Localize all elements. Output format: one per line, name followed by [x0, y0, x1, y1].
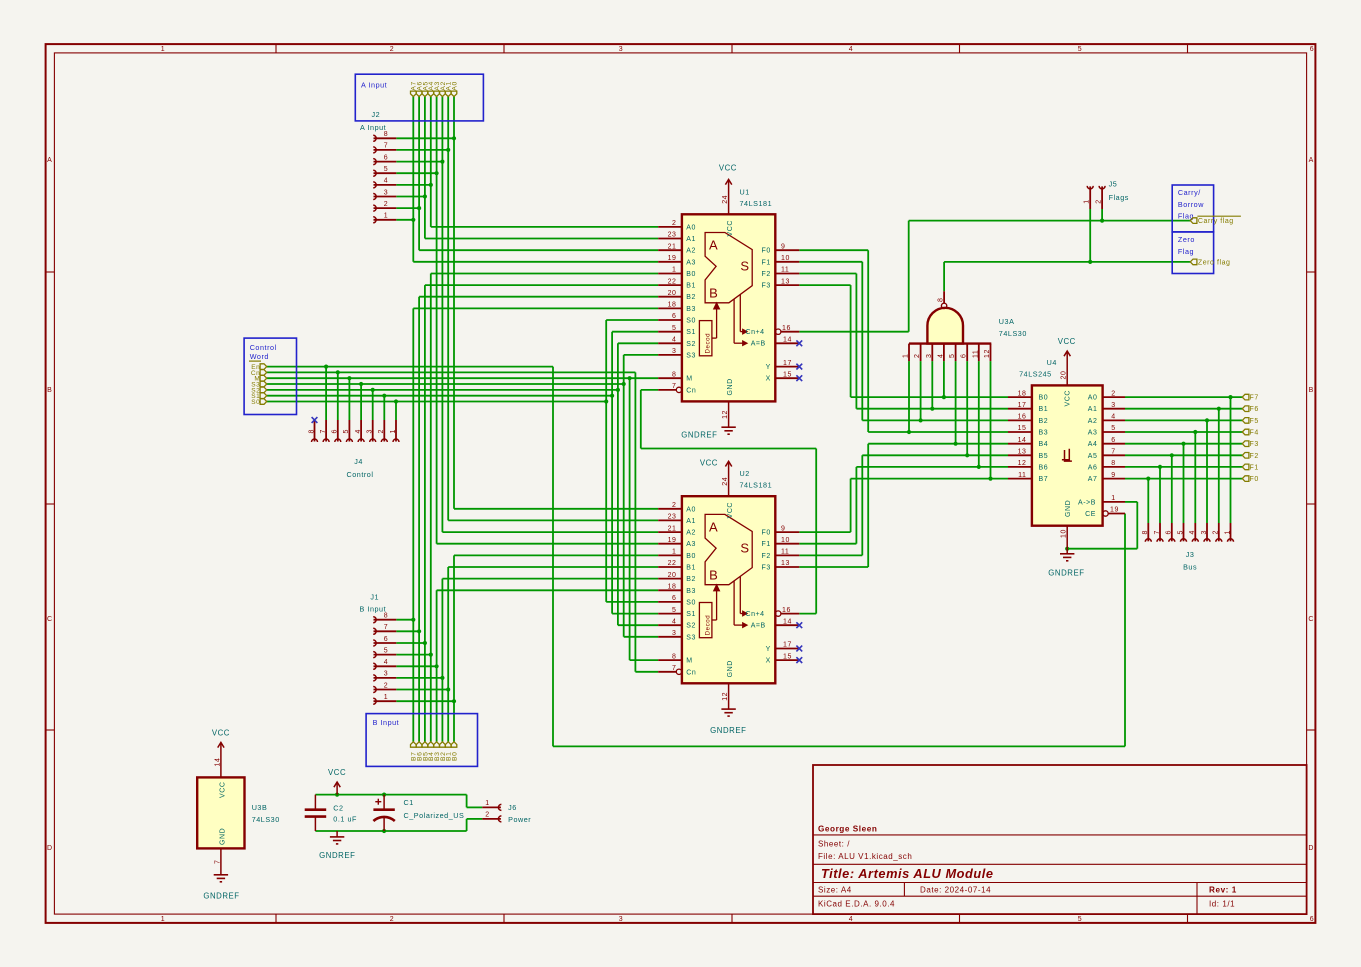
svg-text:A=B: A=B [751, 341, 766, 348]
svg-text:3: 3 [1201, 530, 1208, 534]
svg-text:D: D [47, 845, 53, 852]
svg-text:B1: B1 [686, 565, 696, 572]
svg-text:S: S [740, 540, 749, 555]
svg-text:6: 6 [384, 636, 388, 643]
svg-text:6: 6 [1166, 530, 1173, 534]
svg-text:A3: A3 [686, 259, 696, 266]
svg-text:A2: A2 [686, 530, 696, 537]
svg-text:1: 1 [161, 46, 165, 53]
svg-text:3: 3 [619, 46, 623, 53]
svg-text:A: A [709, 519, 718, 534]
svg-text:B Input: B Input [373, 718, 400, 727]
svg-text:Borrow: Borrow [1178, 200, 1204, 209]
svg-text:X: X [766, 376, 771, 383]
svg-text:A Input: A Input [361, 80, 387, 89]
svg-text:Id: 1/1: Id: 1/1 [1209, 900, 1235, 909]
svg-text:23: 23 [668, 514, 677, 521]
connector J1 B Input [360, 593, 397, 705]
svg-text:12: 12 [722, 410, 729, 419]
svg-text:1: 1 [1083, 199, 1090, 203]
svg-text:1: 1 [672, 549, 676, 556]
svg-text:5: 5 [343, 429, 350, 433]
svg-text:10: 10 [781, 255, 790, 262]
svg-text:7: 7 [1111, 449, 1115, 456]
svg-text:S1: S1 [686, 611, 696, 618]
capacitor C1 polarized [373, 795, 464, 831]
svg-text:15: 15 [783, 653, 792, 660]
svg-text:12: 12 [722, 692, 729, 701]
svg-text:GND: GND [1065, 500, 1072, 517]
power VCC at U1 [719, 164, 737, 215]
svg-text:Cn+4: Cn+4 [746, 329, 765, 336]
power unit U3B 74LS30 [197, 729, 280, 901]
svg-text:J1: J1 [370, 593, 379, 602]
svg-text:A1: A1 [1088, 406, 1098, 413]
svg-text:10: 10 [781, 537, 790, 544]
svg-text:5: 5 [384, 166, 388, 173]
wire En long route to U4 CE [553, 367, 1125, 747]
svg-text:74LS245: 74LS245 [1019, 370, 1052, 379]
svg-text:1: 1 [1224, 530, 1231, 534]
svg-text:S0: S0 [251, 399, 260, 406]
svg-text:12: 12 [984, 349, 991, 358]
svg-text:F0: F0 [1250, 476, 1259, 483]
svg-text:GND: GND [727, 378, 734, 395]
svg-text:8: 8 [384, 131, 388, 138]
svg-text:Cn: Cn [686, 669, 696, 676]
svg-text:B: B [47, 387, 52, 394]
svg-text:5: 5 [1177, 530, 1184, 534]
svg-text:4: 4 [355, 429, 362, 433]
ground GNDREF at U1 [681, 401, 736, 439]
wire B-input bus verticals to B sheet pins [413, 274, 454, 742]
svg-text:VCC: VCC [727, 220, 734, 236]
svg-text:VCC: VCC [219, 782, 226, 798]
svg-text:S3: S3 [686, 352, 696, 359]
svg-text:18: 18 [1018, 390, 1027, 397]
svg-text:VCC: VCC [700, 459, 718, 468]
svg-text:VCC: VCC [1065, 390, 1072, 406]
svg-text:S: S [740, 259, 749, 274]
svg-text:17: 17 [783, 360, 792, 367]
svg-text:S1: S1 [686, 329, 696, 336]
svg-text:F0: F0 [762, 530, 771, 537]
hierarchical sheet A Input [355, 74, 483, 121]
svg-text:8: 8 [384, 613, 388, 620]
svg-text:Cn: Cn [686, 387, 696, 394]
svg-text:GNDREF: GNDREF [319, 851, 355, 860]
svg-text:14: 14 [783, 337, 792, 344]
U2 reference labels [740, 469, 773, 490]
svg-text:3: 3 [672, 348, 676, 355]
svg-text:4: 4 [1111, 414, 1115, 421]
svg-text:Word: Word [250, 352, 269, 361]
svg-text:2: 2 [378, 429, 385, 433]
power VCC at J6 rail [328, 768, 346, 795]
svg-text:23: 23 [668, 232, 677, 239]
svg-text:14: 14 [1018, 437, 1027, 444]
svg-text:20: 20 [668, 572, 677, 579]
connector J2 A Input [360, 123, 396, 223]
transceiver U4 74LS245 [1008, 358, 1125, 526]
svg-text:F1: F1 [1250, 464, 1259, 471]
svg-text:A0: A0 [1088, 395, 1098, 402]
svg-text:5: 5 [1111, 425, 1115, 432]
svg-text:22: 22 [668, 560, 677, 567]
hierarchical sheet Zero Flag [1172, 232, 1230, 274]
svg-text:B1: B1 [686, 283, 696, 290]
svg-text:Decod: Decod [705, 615, 712, 636]
gate U3A 74LS30 NAND [903, 291, 1027, 361]
svg-text:6: 6 [672, 313, 676, 320]
U2 left pins [658, 502, 696, 676]
svg-text:3: 3 [672, 630, 676, 637]
svg-text:F2: F2 [762, 271, 771, 278]
svg-text:M: M [686, 658, 692, 665]
wire B-bus horizontals to U1 and U2 B pins [413, 274, 658, 591]
op-amp U2 74LS181 body [682, 496, 775, 683]
svg-text:17: 17 [1018, 402, 1027, 409]
wire A-input bus verticals from sheet pins [413, 97, 454, 544]
svg-text:U3A: U3A [999, 317, 1015, 326]
wire U2 F outputs to U4 B4-B7 [799, 444, 1008, 567]
hierarchical sheet Carry Borrow Flag [1172, 185, 1241, 232]
svg-text:A=B: A=B [751, 623, 766, 630]
svg-text:A Input: A Input [360, 123, 386, 132]
svg-text:A1: A1 [686, 518, 696, 525]
svg-text:J4: J4 [354, 457, 363, 466]
svg-text:1: 1 [390, 429, 397, 433]
svg-text:2: 2 [485, 812, 489, 819]
svg-text:F7: F7 [1250, 395, 1259, 402]
svg-text:2: 2 [914, 354, 921, 358]
svg-text:U3B: U3B [252, 803, 268, 812]
svg-text:A3: A3 [686, 541, 696, 548]
svg-text:M: M [686, 376, 692, 383]
svg-text:B1: B1 [1039, 406, 1049, 413]
svg-text:A5: A5 [1088, 453, 1098, 460]
svg-text:9: 9 [1111, 472, 1115, 479]
svg-text:F2: F2 [762, 553, 771, 560]
title block [813, 765, 1307, 914]
power VCC at U2 [700, 459, 732, 497]
svg-text:21: 21 [668, 525, 677, 532]
hierarchical labels F7-F0 [1242, 394, 1258, 483]
svg-text:1: 1 [903, 354, 910, 358]
svg-text:A: A [47, 157, 52, 164]
svg-text:2: 2 [1095, 199, 1102, 203]
svg-text:F3: F3 [762, 565, 771, 572]
svg-text:20: 20 [668, 290, 677, 297]
svg-text:F4: F4 [1250, 430, 1259, 437]
svg-text:A1: A1 [686, 236, 696, 243]
wire U1 F outputs to U4 B0-B3 [799, 250, 1008, 432]
svg-text:A3: A3 [1088, 430, 1098, 437]
svg-text:13: 13 [781, 278, 790, 285]
svg-text:B6: B6 [1039, 464, 1049, 471]
wire J1 pin stub wires and junctions [396, 618, 456, 704]
hierarchical sheet B Input [366, 714, 477, 767]
svg-text:24: 24 [722, 477, 729, 486]
svg-text:1: 1 [384, 213, 388, 220]
svg-text:7: 7 [672, 665, 676, 672]
wire J2 pin stub wires and junctions [396, 136, 456, 222]
svg-text:F6: F6 [1250, 406, 1259, 413]
ground GNDREF at U4 [1048, 526, 1084, 578]
wire control bus from Control Word sheet [267, 367, 659, 402]
svg-text:10: 10 [1061, 529, 1068, 538]
svg-text:Y: Y [766, 364, 771, 371]
svg-text:21: 21 [668, 243, 677, 250]
svg-text:14: 14 [783, 618, 792, 625]
svg-text:S2: S2 [686, 341, 696, 348]
svg-text:GND: GND [727, 660, 734, 677]
svg-text:9: 9 [781, 243, 785, 250]
svg-text:19: 19 [1110, 507, 1119, 514]
svg-text:U4: U4 [1047, 358, 1057, 367]
svg-text:A7: A7 [1088, 476, 1098, 483]
svg-text:VCC: VCC [727, 502, 734, 518]
svg-text:6: 6 [332, 429, 339, 433]
U1 left pins [658, 220, 696, 394]
svg-text:13: 13 [781, 560, 790, 567]
svg-text:6: 6 [384, 154, 388, 161]
svg-text:A->B: A->B [1078, 499, 1096, 506]
svg-text:9: 9 [781, 525, 785, 532]
svg-text:2: 2 [1111, 390, 1115, 397]
svg-text:B: B [1309, 387, 1314, 394]
svg-text:24: 24 [722, 195, 729, 204]
svg-text:F0: F0 [762, 248, 771, 255]
svg-text:B2: B2 [686, 576, 696, 583]
svg-text:B3: B3 [1039, 430, 1049, 437]
svg-text:B3: B3 [686, 306, 696, 313]
svg-text:B0: B0 [686, 271, 696, 278]
svg-text:Title: Artemis ALU Module: Title: Artemis ALU Module [821, 866, 994, 881]
svg-text:F5: F5 [1250, 418, 1259, 425]
svg-text:B2: B2 [1039, 418, 1049, 425]
svg-text:S3: S3 [686, 634, 696, 641]
svg-text:A4: A4 [1088, 441, 1098, 448]
svg-text:F1: F1 [762, 541, 771, 548]
svg-text:1: 1 [672, 267, 676, 274]
svg-text:16: 16 [782, 607, 791, 614]
ground GNDREF at U2 [710, 683, 746, 735]
svg-text:F1: F1 [762, 259, 771, 266]
op-amp U1 74LS181 body [682, 214, 775, 401]
connector J3 Bus [1142, 523, 1233, 572]
svg-text:3: 3 [384, 671, 388, 678]
svg-text:VCC: VCC [719, 164, 737, 173]
svg-text:7: 7 [1154, 530, 1161, 534]
svg-text:16: 16 [1018, 414, 1027, 421]
svg-text:B0: B0 [1039, 395, 1049, 402]
svg-text:19: 19 [668, 537, 677, 544]
svg-text:3: 3 [384, 189, 388, 196]
wire S0-S3 M Cn verticals to U1 and U2 [604, 320, 635, 672]
svg-text:4: 4 [384, 178, 388, 185]
svg-text:3: 3 [926, 354, 933, 358]
svg-text:A6: A6 [1088, 464, 1098, 471]
svg-text:4: 4 [937, 354, 944, 358]
svg-text:J5: J5 [1109, 180, 1118, 189]
svg-text:12: 12 [1018, 460, 1027, 467]
hierarchical sheet Control Word [244, 338, 296, 414]
svg-text:VCC: VCC [1058, 337, 1076, 346]
svg-text:File: ALU V1.kicad_sch: File: ALU V1.kicad_sch [818, 852, 912, 861]
capacitor C2 0.1uF [305, 795, 357, 831]
svg-text:4: 4 [672, 337, 676, 344]
svg-text:Carry/: Carry/ [1178, 188, 1201, 197]
svg-text:5: 5 [1078, 46, 1082, 53]
svg-text:U2: U2 [740, 469, 750, 478]
svg-text:7: 7 [320, 429, 327, 433]
svg-text:J2: J2 [372, 110, 381, 119]
svg-text:Zero flag: Zero flag [1198, 260, 1231, 267]
svg-text:1: 1 [1111, 495, 1115, 502]
wire control drops to J4 with junctions [324, 365, 398, 421]
svg-text:1: 1 [485, 800, 489, 807]
svg-text:VCC: VCC [328, 768, 346, 777]
svg-text:4: 4 [384, 659, 388, 666]
svg-text:1: 1 [161, 916, 165, 923]
svg-text:6: 6 [1310, 46, 1314, 53]
svg-text:D: D [1308, 845, 1314, 852]
svg-text:15: 15 [1018, 425, 1027, 432]
svg-text:KiCad E.D.A. 9.0.4: KiCad E.D.A. 9.0.4 [818, 900, 895, 909]
svg-text:GNDREF: GNDREF [1048, 569, 1084, 578]
svg-text:GND: GND [219, 828, 226, 845]
svg-text:16: 16 [782, 325, 791, 332]
svg-text:B7: B7 [1039, 476, 1049, 483]
svg-text:1: 1 [384, 694, 388, 701]
svg-text:VCC: VCC [212, 729, 230, 738]
svg-text:20: 20 [1061, 371, 1068, 380]
svg-text:2: 2 [384, 682, 388, 689]
svg-text:A2: A2 [1088, 418, 1098, 425]
svg-text:8: 8 [1111, 460, 1115, 467]
connector J4 Control [308, 417, 399, 479]
svg-text:CE: CE [1085, 511, 1096, 518]
svg-text:2: 2 [390, 916, 394, 923]
svg-text:GNDREF: GNDREF [203, 892, 239, 901]
svg-text:11: 11 [781, 549, 789, 556]
wire NAND U3A inputs to F bus with junctions [907, 361, 993, 481]
svg-text:7: 7 [672, 383, 676, 390]
svg-text:5: 5 [384, 647, 388, 654]
svg-text:F3: F3 [762, 283, 771, 290]
svg-text:15: 15 [783, 371, 792, 378]
svg-text:C1: C1 [404, 798, 414, 807]
svg-text:18: 18 [668, 302, 677, 309]
svg-text:3: 3 [1111, 402, 1115, 409]
svg-text:18: 18 [668, 584, 677, 591]
svg-text:B4: B4 [1039, 441, 1049, 448]
wire U1 Cn input from U2 carry out [641, 390, 816, 614]
svg-text:Size: A4: Size: A4 [818, 886, 852, 895]
svg-text:4: 4 [672, 618, 676, 625]
svg-text:GNDREF: GNDREF [710, 726, 746, 735]
svg-text:6: 6 [1310, 916, 1314, 923]
svg-text:8: 8 [1142, 530, 1149, 534]
svg-text:5: 5 [672, 607, 676, 614]
svg-text:8: 8 [308, 429, 315, 433]
svg-text:C_Polarized_US: C_Polarized_US [404, 811, 465, 820]
svg-text:B Input: B Input [360, 604, 387, 613]
svg-text:74LS181: 74LS181 [740, 199, 773, 208]
svg-text:Y: Y [766, 646, 771, 653]
svg-text:6: 6 [672, 595, 676, 602]
svg-text:7: 7 [384, 143, 388, 150]
svg-text:A: A [709, 238, 718, 253]
svg-text:F2: F2 [1250, 453, 1259, 460]
svg-text:14: 14 [214, 758, 221, 767]
svg-text:7: 7 [384, 624, 388, 631]
svg-text:U1: U1 [740, 187, 750, 196]
svg-text:B: B [709, 567, 718, 582]
svg-text:11: 11 [781, 267, 789, 274]
svg-text:A2: A2 [686, 248, 696, 255]
svg-text:Flag: Flag [1178, 247, 1194, 256]
connector J6 Power [482, 800, 531, 824]
wire U4 A outputs to F labels and J3 with junctions [1125, 395, 1242, 523]
svg-text:4: 4 [849, 916, 853, 923]
svg-text:Cn+4: Cn+4 [746, 611, 765, 618]
U1 reference labels [740, 187, 773, 208]
svg-text:Control: Control [346, 470, 373, 479]
svg-text:11: 11 [1018, 472, 1026, 479]
svg-text:Zero: Zero [1178, 235, 1195, 244]
svg-text:2: 2 [1213, 530, 1220, 534]
svg-text:Rev: 1: Rev: 1 [1209, 886, 1237, 895]
svg-text:Decod: Decod [705, 333, 712, 354]
svg-text:S2: S2 [686, 623, 696, 630]
svg-text:74LS30: 74LS30 [252, 815, 280, 824]
svg-text:6: 6 [961, 354, 968, 358]
svg-text:2: 2 [672, 502, 676, 509]
svg-text:B5: B5 [1039, 453, 1049, 460]
svg-text:S0: S0 [686, 318, 696, 325]
svg-text:Carry flag: Carry flag [1198, 218, 1234, 225]
svg-text:2: 2 [672, 220, 676, 227]
svg-text:B0: B0 [686, 553, 696, 560]
svg-text:J3: J3 [1186, 550, 1195, 559]
svg-text:2: 2 [390, 46, 394, 53]
wire control stubs into U2 S M Cn pins [606, 602, 658, 672]
svg-text:19: 19 [668, 255, 677, 262]
svg-text:7: 7 [214, 860, 221, 864]
svg-text:5: 5 [1078, 916, 1082, 923]
svg-text:8: 8 [938, 298, 945, 302]
wire U1 carry out to Carry flag [799, 219, 1190, 332]
svg-text:A: A [1309, 157, 1314, 164]
svg-text:Control: Control [250, 343, 277, 352]
svg-text:5: 5 [672, 325, 676, 332]
svg-text:Sheet: /: Sheet: / [818, 840, 850, 849]
svg-text:2: 2 [384, 201, 388, 208]
svg-text:C: C [47, 616, 53, 623]
svg-text:Date: 2024-07-14: Date: 2024-07-14 [920, 886, 991, 895]
svg-text:B3: B3 [686, 588, 696, 595]
svg-text:17: 17 [783, 642, 792, 649]
svg-text:A0: A0 [686, 224, 696, 231]
svg-text:8: 8 [672, 653, 676, 660]
svg-text:13: 13 [1018, 449, 1027, 456]
power VCC at U4 [1058, 337, 1076, 385]
svg-text:Bus: Bus [1183, 563, 1197, 572]
wire J5 pin stubs [1090, 209, 1102, 262]
svg-text:J6: J6 [508, 803, 517, 812]
